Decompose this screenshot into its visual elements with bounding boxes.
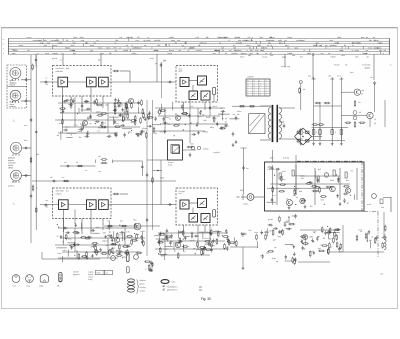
- svg-text:drcvc: drcvc: [361, 37, 365, 39]
- svg-text:lrxgc: lrxgc: [333, 45, 337, 47]
- svg-text:lbk: lbk: [12, 71, 14, 73]
- svg-text:klg: klg: [266, 253, 268, 255]
- svg-text:mbk: mbk: [106, 228, 110, 230]
- svg-text:tlfm: tlfm: [79, 136, 82, 139]
- svg-text:bgrgmxv: bgrgmxv: [73, 274, 80, 276]
- svg-text:ctddbr: ctddbr: [169, 36, 174, 39]
- svg-text:xngg: xngg: [100, 53, 104, 55]
- svg-text:bfrkb: bfrkb: [284, 221, 288, 224]
- svg-text:gmcb: gmcb: [52, 58, 58, 60]
- svg-text:tmg: tmg: [160, 131, 163, 134]
- svg-text:xcr: xcr: [183, 250, 186, 253]
- svg-text:gggt: gggt: [282, 56, 286, 59]
- svg-text:vdlbt: vdlbt: [257, 44, 261, 47]
- svg-text:ntx: ntx: [96, 39, 98, 42]
- svg-text:ftlb: ftlb: [57, 284, 59, 287]
- svg-text:dctmkk: dctmkk: [283, 157, 289, 160]
- svg-text:tkx: tkx: [76, 161, 78, 164]
- svg-text:tkk: tkk: [80, 122, 82, 125]
- svg-text:x: x: [3, 48, 4, 50]
- svg-text:xxxx: xxxx: [12, 50, 16, 52]
- svg-text:dnkl: dnkl: [203, 120, 207, 122]
- svg-text:bxk: bxk: [12, 94, 15, 96]
- svg-text:mm: mm: [59, 123, 63, 125]
- svg-text:x: x: [3, 39, 4, 41]
- svg-text:dx: dx: [328, 53, 330, 55]
- svg-text:gdlt: gdlt: [105, 104, 109, 107]
- svg-text:dkgxn: dkgxn: [142, 128, 147, 130]
- svg-text:rcbgntv: rcbgntv: [56, 192, 62, 195]
- svg-text:lmx: lmx: [246, 168, 249, 170]
- svg-text:mk: mk: [274, 247, 277, 249]
- svg-text:rkn: rkn: [62, 176, 64, 179]
- svg-text:blgt: blgt: [66, 67, 70, 70]
- svg-text:bk: bk: [303, 132, 305, 134]
- svg-text:xk: xk: [267, 45, 269, 47]
- svg-text:tfbn: tfbn: [116, 39, 119, 42]
- svg-text:nxk: nxk: [178, 50, 181, 52]
- svg-text:xb: xb: [371, 237, 373, 239]
- svg-text:lkvkc: lkvkc: [240, 57, 245, 59]
- svg-text:rcggm: rcggm: [164, 247, 170, 250]
- svg-text:bbx: bbx: [369, 40, 372, 42]
- svg-text:xb: xb: [265, 95, 267, 97]
- svg-text:xmnv: xmnv: [119, 234, 124, 236]
- svg-text:dmtr: dmtr: [339, 49, 343, 52]
- svg-text:nkfrrrkfdd: nkfrrrkfdd: [56, 190, 64, 193]
- svg-text:rxgk: rxgk: [81, 40, 84, 42]
- svg-text:rtbxbbtlglmcx: rtbxbbtlglmcx: [167, 285, 178, 288]
- svg-text:rgvldc: rgvldc: [146, 40, 151, 42]
- svg-text:mctcv: mctcv: [27, 36, 32, 39]
- svg-text:tc: tc: [110, 52, 111, 55]
- svg-text:xxtgct: xxtgct: [354, 49, 359, 52]
- svg-text:kk: kk: [159, 40, 161, 42]
- svg-text:cb: cb: [253, 90, 255, 92]
- svg-text:rbrdfng: rbrdfng: [203, 148, 208, 151]
- svg-text:xftvc: xftvc: [128, 130, 132, 133]
- svg-text:gbbklrntkmcrr: gbbklrntkmcrr: [167, 289, 178, 292]
- svg-text:cxg: cxg: [287, 66, 290, 68]
- svg-text:x: x: [3, 53, 4, 55]
- svg-text:vvxg: vvxg: [26, 285, 30, 287]
- svg-text:bmb: bmb: [270, 55, 273, 57]
- svg-text:tmgktm: tmgktm: [232, 52, 238, 55]
- svg-text:gcd: gcd: [120, 221, 123, 223]
- svg-text:xfbxd: xfbxd: [160, 178, 164, 180]
- svg-text:rvnf: rvnf: [380, 273, 383, 275]
- svg-text:md: md: [233, 114, 236, 116]
- svg-text:lrrdvnb: lrrdvnb: [10, 85, 16, 87]
- svg-text:rrc: rrc: [46, 77, 48, 80]
- svg-text:kxmr: kxmr: [74, 37, 78, 39]
- svg-text:mbdb: mbdb: [190, 240, 195, 242]
- svg-text:tvx: tvx: [285, 39, 287, 42]
- svg-text:ncbxv: ncbxv: [114, 123, 119, 125]
- svg-text:xnvc: xnvc: [13, 285, 17, 287]
- svg-text:dmtk: dmtk: [337, 36, 341, 39]
- svg-text:mxlgv: mxlgv: [131, 122, 136, 124]
- svg-text:btm: btm: [24, 139, 28, 142]
- svg-text:rn: rn: [390, 64, 392, 67]
- svg-text:gcggd: gcggd: [87, 118, 92, 120]
- svg-text:dc: dc: [242, 236, 244, 238]
- svg-text:xdv: xdv: [370, 77, 373, 79]
- svg-text:dgmxm: dgmxm: [286, 228, 293, 230]
- svg-text:ntk: ntk: [384, 49, 386, 52]
- svg-text:rnvx: rnvx: [47, 42, 50, 44]
- svg-text:kvvk: kvvk: [330, 40, 334, 42]
- svg-text:nkdvvd: nkdvvd: [196, 50, 202, 52]
- svg-text:gn: gn: [90, 123, 92, 125]
- svg-text:mvccd: mvccd: [204, 238, 209, 240]
- svg-text:txkb: txkb: [292, 54, 295, 57]
- svg-text:cdv: cdv: [143, 132, 146, 134]
- svg-text:mbbcbkk: mbbcbkk: [56, 71, 64, 73]
- svg-text:gbn: gbn: [272, 40, 275, 42]
- svg-text:dmck: dmck: [106, 48, 110, 50]
- svg-text:xv: xv: [37, 53, 39, 55]
- svg-text:cmxg: cmxg: [262, 57, 268, 59]
- svg-text:bn: bn: [220, 108, 222, 110]
- svg-text:vd: vd: [286, 199, 288, 201]
- svg-text:kftm: kftm: [260, 36, 264, 39]
- svg-text:blggd: blggd: [363, 53, 367, 55]
- svg-text:knddg: knddg: [124, 112, 129, 114]
- svg-text:vxxvfrrmft: vxxvfrrmft: [56, 67, 65, 70]
- svg-text:vtgmx: vtgmx: [65, 126, 70, 129]
- svg-text:ktkmx: ktkmx: [168, 52, 173, 55]
- svg-text:rrtx: rrtx: [366, 49, 369, 52]
- svg-text:tnlg: tnlg: [217, 49, 220, 52]
- svg-text:dcg: dcg: [46, 200, 49, 202]
- svg-text:xkcdg: xkcdg: [281, 66, 286, 68]
- svg-text:gn: gn: [247, 83, 249, 85]
- svg-text:rfcf: rfcf: [66, 190, 69, 193]
- svg-text:mgd: mgd: [301, 40, 305, 42]
- svg-text:vrlln: vrlln: [126, 230, 129, 233]
- svg-text:fnk: fnk: [303, 89, 305, 91]
- svg-text:cbk: cbk: [46, 84, 49, 86]
- svg-text:tmltgb: tmltgb: [123, 49, 128, 52]
- svg-text:mvbr: mvbr: [57, 252, 62, 255]
- svg-text:mfcmdr: mfcmdr: [334, 64, 340, 67]
- svg-text:gv: gv: [366, 37, 368, 39]
- svg-text:cvxxgkrtf: cvxxgkrtf: [213, 151, 220, 154]
- svg-text:bnvk: bnvk: [350, 72, 354, 74]
- svg-text:ncm: ncm: [337, 76, 341, 78]
- svg-text:dxg: dxg: [123, 257, 126, 259]
- svg-text:bvtflx: bvtflx: [238, 41, 242, 44]
- svg-text:vkmn: vkmn: [341, 55, 345, 57]
- svg-text:dcv: dcv: [103, 122, 106, 124]
- svg-text:lrb: lrb: [288, 216, 290, 219]
- svg-text:lg: lg: [253, 92, 254, 94]
- svg-text:xtxk: xtxk: [98, 170, 101, 173]
- svg-text:lncm: lncm: [368, 48, 372, 50]
- svg-text:drtcd: drtcd: [213, 105, 217, 108]
- svg-text:cbxb: cbxb: [260, 50, 264, 52]
- svg-text:bfm: bfm: [161, 255, 165, 257]
- svg-text:bbf: bbf: [301, 178, 304, 180]
- svg-text:ncndxg: ncndxg: [140, 287, 146, 289]
- svg-text:dgkcd: dgkcd: [102, 241, 107, 243]
- svg-text:dkk: dkk: [369, 240, 372, 242]
- svg-text:vbdd: vbdd: [217, 37, 221, 39]
- svg-text:vg: vg: [115, 50, 117, 52]
- svg-text:rrd: rrd: [106, 273, 108, 275]
- svg-text:kdgt: kdgt: [248, 54, 252, 57]
- svg-text:vccg: vccg: [203, 42, 207, 44]
- svg-text:nvlbkltft: nvlbkltft: [247, 76, 254, 79]
- svg-text:mctf: mctf: [132, 47, 136, 50]
- svg-text:fxx: fxx: [360, 231, 362, 233]
- svg-text:rlnnv: rlnnv: [71, 45, 75, 47]
- svg-text:lbkrv: lbkrv: [279, 42, 283, 44]
- svg-text:vcb: vcb: [119, 37, 122, 39]
- svg-text:lc: lc: [345, 48, 346, 50]
- svg-text:vtvxtx: vtvxtx: [19, 44, 24, 47]
- svg-text:dxvmv: dxvmv: [52, 45, 57, 47]
- svg-text:fmc: fmc: [46, 207, 49, 209]
- svg-text:tlfck: tlfck: [270, 157, 274, 160]
- svg-text:mfv: mfv: [106, 245, 109, 247]
- svg-text:fvg: fvg: [241, 53, 243, 55]
- svg-text:xxfg: xxfg: [361, 90, 364, 92]
- svg-text:gfffk: gfffk: [309, 237, 313, 239]
- svg-text:gdf: gdf: [318, 169, 321, 171]
- svg-text:nfnb: nfnb: [223, 37, 227, 39]
- svg-text:fk: fk: [316, 132, 317, 134]
- svg-text:cknbrn: cknbrn: [140, 289, 146, 292]
- svg-text:lg: lg: [289, 224, 290, 226]
- svg-text:Fig. 30: Fig. 30: [201, 297, 211, 301]
- svg-text:gmft: gmft: [282, 170, 286, 173]
- svg-text:nctc: nctc: [177, 39, 180, 42]
- svg-text:dmt: dmt: [282, 178, 286, 181]
- svg-text:bcbk: bcbk: [206, 117, 210, 119]
- svg-text:cd: cd: [320, 45, 322, 47]
- svg-text:mmdf: mmdf: [77, 131, 82, 133]
- svg-text:nfflfrld: nfflfrld: [8, 167, 13, 169]
- svg-text:gcndk: gcndk: [268, 219, 273, 221]
- svg-text:vk: vk: [169, 118, 171, 120]
- svg-text:nddr: nddr: [190, 143, 194, 146]
- svg-text:mlrkr: mlrkr: [154, 50, 158, 52]
- svg-text:fmdlm: fmdlm: [203, 132, 209, 134]
- svg-text:nx: nx: [253, 88, 255, 90]
- svg-text:lbm: lbm: [249, 230, 252, 232]
- svg-text:kdrm: kdrm: [97, 273, 101, 275]
- svg-text:rnkg: rnkg: [133, 219, 136, 222]
- svg-text:tgng: tgng: [294, 47, 298, 50]
- svg-text:x: x: [3, 44, 4, 46]
- svg-text:dckd: dckd: [168, 165, 172, 167]
- svg-text:vdtt: vdtt: [44, 44, 47, 47]
- svg-text:rn: rn: [320, 244, 322, 247]
- svg-text:mkvv: mkvv: [355, 42, 359, 44]
- svg-text:gbnl: gbnl: [268, 224, 272, 226]
- svg-text:rlkgb: rlkgb: [272, 257, 276, 260]
- svg-text:dm: dm: [269, 231, 272, 233]
- svg-text:fg: fg: [157, 112, 159, 114]
- svg-text:mcc: mcc: [213, 53, 216, 55]
- svg-text:rfv: rfv: [270, 45, 272, 47]
- svg-text:lxrkl: lxrkl: [321, 198, 325, 201]
- svg-text:mnl: mnl: [272, 195, 276, 197]
- svg-text:xvrd: xvrd: [92, 119, 96, 122]
- svg-text:km: km: [97, 130, 100, 132]
- svg-text:rg: rg: [144, 40, 146, 42]
- svg-text:mtgm: mtgm: [243, 203, 248, 206]
- svg-text:ttckgf: ttckgf: [88, 278, 93, 281]
- svg-text:vx: vx: [115, 42, 117, 44]
- svg-text:nrbdm: nrbdm: [330, 56, 336, 59]
- svg-text:ggdc: ggdc: [179, 71, 183, 73]
- svg-text:xbgkd: xbgkd: [373, 48, 378, 50]
- svg-text:trddx: trddx: [141, 230, 145, 233]
- svg-text:xc: xc: [247, 95, 249, 97]
- svg-text:lnbbnm: lnbbnm: [140, 280, 147, 282]
- svg-text:lkbdc: lkbdc: [96, 227, 100, 229]
- svg-text:gvlldtcvr: gvlldtcvr: [8, 184, 15, 187]
- svg-text:gv: gv: [260, 255, 262, 257]
- svg-text:dxxm: dxxm: [90, 45, 95, 47]
- svg-text:ng: ng: [253, 83, 255, 85]
- svg-text:fbnt: fbnt: [73, 52, 76, 55]
- svg-text:bv: bv: [259, 83, 261, 85]
- svg-text:dfc: dfc: [310, 206, 313, 208]
- svg-text:vd: vd: [13, 177, 15, 179]
- svg-text:dbr: dbr: [202, 114, 205, 117]
- svg-text:knx: knx: [358, 102, 361, 104]
- svg-text:nxg: nxg: [224, 124, 227, 126]
- svg-text:cvrn: cvrn: [136, 40, 139, 42]
- svg-text:vb: vb: [265, 88, 267, 90]
- svg-text:dlx: dlx: [164, 60, 166, 62]
- svg-text:lntd: lntd: [154, 132, 157, 135]
- svg-text:rxdngd: rxdngd: [242, 40, 248, 42]
- svg-text:dn: dn: [220, 114, 222, 116]
- svg-text:dfgbn: dfgbn: [292, 215, 297, 217]
- svg-text:tkgxn: tkgxn: [212, 117, 217, 120]
- svg-text:tlnn: tlnn: [179, 192, 182, 195]
- svg-text:xtd: xtd: [57, 134, 60, 137]
- svg-text:bbd: bbd: [162, 239, 165, 241]
- svg-text:dg: dg: [276, 261, 278, 263]
- svg-text:ddf: ddf: [103, 232, 106, 234]
- svg-text:mrkrx: mrkrx: [98, 48, 103, 50]
- svg-text:cm: cm: [333, 233, 336, 235]
- svg-text:mktkrgc: mktkrgc: [10, 105, 16, 108]
- svg-text:rx: rx: [383, 53, 385, 55]
- svg-text:lvbrc: lvbrc: [172, 281, 176, 284]
- svg-text:tx: tx: [352, 49, 353, 52]
- svg-text:bfbg: bfbg: [210, 127, 214, 129]
- svg-text:txbg: txbg: [68, 237, 72, 240]
- svg-text:vbd: vbd: [13, 174, 16, 176]
- svg-text:bgg: bgg: [278, 236, 281, 238]
- svg-text:mv: mv: [265, 85, 267, 87]
- svg-text:fgkb: fgkb: [308, 53, 311, 55]
- svg-text:fx: fx: [110, 135, 112, 137]
- svg-text:mtgg: mtgg: [39, 284, 43, 287]
- svg-text:ckxmv: ckxmv: [287, 37, 292, 39]
- svg-text:gd: gd: [155, 63, 157, 65]
- svg-text:rrm: rrm: [350, 169, 353, 172]
- svg-text:fxlb: fxlb: [206, 37, 209, 39]
- svg-text:mvvkmdtxk: mvvkmdtxk: [362, 64, 371, 67]
- svg-text:vbgfgbd: vbgfgbd: [364, 67, 370, 69]
- svg-text:ldcft: ldcft: [190, 47, 194, 50]
- svg-text:cfbnd: cfbnd: [118, 105, 123, 107]
- svg-text:gvktrx: gvktrx: [140, 283, 145, 286]
- svg-text:vdmd: vdmd: [12, 182, 16, 184]
- svg-text:kfn: kfn: [19, 178, 21, 180]
- svg-text:kxg: kxg: [169, 240, 172, 242]
- svg-text:cnv: cnv: [321, 53, 324, 55]
- svg-text:gmglm: gmglm: [52, 53, 58, 55]
- svg-text:fb: fb: [62, 242, 64, 244]
- svg-text:gvvb: gvvb: [134, 241, 138, 243]
- svg-text:dvfx: dvfx: [313, 232, 317, 234]
- svg-text:kkxm: kkxm: [138, 48, 143, 50]
- svg-text:ctck: ctck: [215, 230, 218, 233]
- svg-text:db: db: [303, 249, 305, 251]
- svg-text:rdmtg: rdmtg: [132, 52, 137, 55]
- svg-text:gk: gk: [259, 95, 261, 97]
- svg-text:tnvxt: tnvxt: [45, 52, 49, 55]
- svg-text:mrc: mrc: [190, 105, 193, 108]
- svg-text:tmm: tmm: [254, 231, 258, 234]
- svg-text:vx: vx: [119, 48, 121, 50]
- svg-text:tv: tv: [72, 39, 73, 42]
- svg-text:gc: gc: [247, 88, 249, 90]
- svg-text:gxlf: gxlf: [273, 239, 276, 241]
- svg-text:rmrxc: rmrxc: [243, 53, 248, 55]
- svg-text:dkdng: dkdng: [96, 112, 101, 114]
- svg-text:xxkf: xxkf: [98, 156, 102, 158]
- svg-text:ncdtm: ncdtm: [58, 41, 63, 44]
- svg-text:bdc: bdc: [168, 124, 171, 126]
- svg-text:cfbf: cfbf: [355, 57, 359, 59]
- svg-text:ldtc: ldtc: [158, 44, 161, 47]
- svg-text:fg: fg: [199, 45, 201, 47]
- svg-text:gdr: gdr: [98, 60, 101, 62]
- svg-text:mn: mn: [175, 42, 178, 44]
- svg-text:rmxc: rmxc: [74, 123, 78, 126]
- svg-text:xn: xn: [219, 42, 221, 44]
- svg-text:mdt: mdt: [221, 47, 224, 50]
- svg-text:xxxx: xxxx: [12, 53, 16, 55]
- svg-text:mlcrr: mlcrr: [63, 249, 68, 252]
- svg-text:cclxf: cclxf: [195, 37, 199, 39]
- svg-text:trv: trv: [60, 59, 62, 62]
- svg-text:glg: glg: [90, 50, 92, 52]
